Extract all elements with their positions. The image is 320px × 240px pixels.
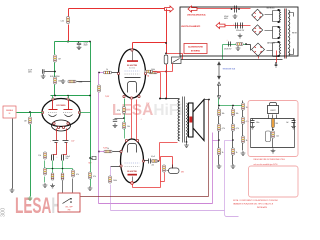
wire anode horizontal bbox=[133, 42, 167, 44]
tube V3 grid1 bbox=[125, 162, 140, 164]
svg-text:1uF: 1uF bbox=[286, 122, 289, 124]
node plateA bbox=[67, 95, 69, 97]
pin V2 right bbox=[144, 72, 146, 74]
pin V1 base3 bbox=[62, 126, 64, 128]
resistor R-plate 100k bbox=[54, 77, 62, 84]
wire bias B down bbox=[63, 143, 67, 155]
resistor R-fb 47k bbox=[89, 172, 96, 179]
svg-text:USCITA FILAMENTI: USCITA FILAMENTI bbox=[181, 25, 201, 28]
svg-text:+: + bbox=[50, 141, 51, 143]
ground input shield bbox=[10, 188, 15, 192]
wire chain B bbox=[232, 107, 234, 165]
pin V3 top2 bbox=[136, 139, 138, 141]
svg-text:0,1uF: 0,1uF bbox=[151, 156, 155, 158]
pin V1 base2 bbox=[57, 126, 59, 128]
label box ALIMENTATORE bbox=[184, 44, 207, 54]
pin V1 base4 bbox=[67, 122, 69, 124]
svg-text:EL34 KT88: EL34 KT88 bbox=[127, 170, 136, 173]
capacitor C-reg-in bbox=[251, 121, 255, 123]
svg-text:470: 470 bbox=[117, 110, 120, 112]
tube V3 label bar bbox=[128, 174, 138, 176]
node decouple junction bbox=[54, 71, 56, 73]
connector mains terminal bbox=[275, 62, 278, 68]
transformer T-mains primary bbox=[289, 10, 290, 56]
ground below C-filter bbox=[77, 45, 82, 49]
wire secondary bottom bbox=[186, 137, 188, 143]
resistor chain 1k A bbox=[218, 148, 224, 155]
resistor R-reg2 bbox=[272, 131, 275, 138]
ground C-reg-out bbox=[291, 125, 296, 129]
wire mains leads bbox=[289, 13, 294, 55]
wire reg top rail bbox=[251, 118, 295, 120]
wire fuse loop top bbox=[167, 54, 183, 60]
node feedback top bbox=[208, 99, 210, 101]
ground C-anodica bbox=[233, 14, 238, 18]
component star-40V bbox=[92, 156, 96, 159]
pin V1 base1 bbox=[53, 122, 55, 124]
terminal squares w3 bbox=[278, 41, 280, 43]
wire chain A bbox=[218, 107, 220, 165]
wire V1 cath A drop bbox=[56, 129, 58, 141]
wire V3 cath tap bbox=[111, 166, 121, 168]
pin V2 left bbox=[117, 72, 119, 74]
wire grid purple tap bbox=[99, 72, 104, 74]
svg-text:47k: 47k bbox=[76, 174, 79, 176]
node fuse bottom bbox=[165, 71, 167, 73]
capacitor C-cath cylinder bbox=[169, 168, 180, 174]
pin V2 bot1 bbox=[123, 95, 125, 97]
psu box frame bbox=[180, 7, 298, 56]
connector J1 input box bbox=[3, 106, 16, 118]
connector arrow filamenti bbox=[216, 23, 225, 29]
tube V3 inner wire bbox=[132, 177, 134, 183]
capacitor C-screen bbox=[113, 120, 117, 122]
wire input shield bbox=[12, 119, 14, 189]
svg-text:4700uF 25V: 4700uF 25V bbox=[236, 30, 244, 32]
transformer T-OUT core bbox=[183, 97, 185, 143]
node chain B mid bbox=[232, 139, 234, 141]
ground regulator bbox=[271, 149, 276, 153]
resistor R-bias 100k bbox=[68, 80, 82, 83]
pin V1 plate B bbox=[67, 98, 69, 100]
wire 47k drop bbox=[72, 169, 74, 171]
wire plate right bbox=[146, 72, 149, 74]
switch SW1 box bbox=[58, 193, 80, 212]
resistor R-screen 470 bbox=[117, 107, 125, 114]
node rail junction bbox=[54, 95, 56, 97]
svg-text:1k: 1k bbox=[222, 152, 224, 154]
transformer T-mains w2 bbox=[279, 27, 280, 38]
wire cath3 red bbox=[133, 182, 161, 188]
resistor chain 4,7k A bbox=[218, 124, 225, 131]
wire green chain rail bbox=[219, 103, 243, 106]
wire green filter rail bbox=[55, 41, 91, 43]
wire xfmr top lead bbox=[161, 98, 180, 100]
rectifier BR3 bbox=[252, 43, 265, 56]
svg-text:100uF: 100uF bbox=[66, 156, 71, 158]
triode A plate bbox=[49, 100, 58, 110]
svg-text:REGOLATORE DI TENSIONE UTILE: REGOLATORE DI TENSIONE UTILE bbox=[254, 158, 286, 161]
svg-text:470uF: 470uF bbox=[224, 16, 229, 18]
ground stub bbox=[61, 79, 66, 83]
switch SW1 terminals bbox=[70, 198, 72, 200]
svg-text:4,7uF: 4,7uF bbox=[28, 70, 32, 72]
pin V1 grid A bbox=[41, 111, 43, 113]
resistor R-left2 bbox=[44, 168, 47, 175]
rectifier BR2 bbox=[252, 25, 262, 35]
wire violet rail bbox=[111, 185, 225, 211]
svg-text:+: + bbox=[233, 24, 234, 26]
wire green PSU drop bbox=[222, 45, 224, 60]
wire purple rail bbox=[98, 73, 100, 204]
capacitor C-aux bbox=[229, 42, 231, 47]
wire c-reg-in tail bbox=[252, 123, 254, 125]
node xfmr top lead b bbox=[165, 98, 167, 100]
svg-text:nel vecchio modello tipo 5V50: nel vecchio modello tipo 5V50 bbox=[254, 163, 278, 166]
node B+ filter junction bbox=[67, 41, 69, 43]
wire green right rail bbox=[90, 42, 92, 159]
triode B cathode bbox=[65, 115, 73, 117]
switch SW1 blade bbox=[63, 199, 71, 204]
svg-text:470uF 25V: 470uF 25V bbox=[224, 49, 231, 51]
wire r tail bbox=[164, 173, 166, 182]
transformer T-mains core bbox=[285, 9, 287, 59]
ground cath A bbox=[50, 184, 55, 188]
wire violet right vertical bbox=[225, 141, 239, 217]
svg-text:100k: 100k bbox=[113, 180, 117, 182]
svg-text:ALIMENTATORE: ALIMENTATORE bbox=[188, 46, 203, 49]
resistor R-cath A 1.5k bbox=[51, 173, 54, 180]
wire B+ top horizontal bbox=[69, 8, 167, 10]
IC LM317 body bbox=[268, 106, 279, 114]
speaker LS1 cone bbox=[193, 100, 204, 141]
switch SW-mains box bbox=[172, 57, 182, 64]
wire reg bottom tail bbox=[272, 139, 274, 148]
IC leads bbox=[269, 115, 277, 119]
wire cath loop top bbox=[161, 156, 173, 158]
node chain L top bbox=[218, 105, 220, 107]
resistor chain 1k B bbox=[232, 148, 238, 155]
svg-text:ESTERNO: ESTERNO bbox=[191, 51, 201, 53]
svg-text:IN: IN bbox=[9, 113, 11, 115]
svg-text:1,5k: 1,5k bbox=[276, 136, 279, 138]
node chain A mid bbox=[218, 139, 220, 141]
wire BR2 to winding bbox=[265, 27, 279, 39]
wire purple bottom horizontal bbox=[99, 203, 213, 205]
wire mains neutral red bbox=[276, 51, 278, 63]
wire green cath rail bbox=[45, 168, 73, 170]
wire violet drop bbox=[110, 167, 112, 177]
svg-text:1k: 1k bbox=[107, 148, 109, 150]
wire feedback maroon horizontal bbox=[81, 196, 209, 198]
wire speaker feedback tap bbox=[205, 99, 209, 101]
wire cath B to switch bbox=[62, 181, 64, 193]
switch SW-mains blade bbox=[173, 59, 180, 63]
resistor R-47k bbox=[72, 170, 79, 177]
probe arrow 1 bbox=[218, 62, 221, 79]
resistor chain 10k C bbox=[242, 103, 249, 110]
node cath A bbox=[52, 168, 54, 170]
node input junction bbox=[29, 111, 31, 113]
svg-text:1,5k: 1,5k bbox=[61, 21, 64, 23]
wire purple chain jog bbox=[213, 140, 219, 142]
wire cath loop bottom bbox=[161, 181, 165, 183]
triode B grid bbox=[63, 111, 72, 113]
wire 47k to switch bbox=[72, 179, 74, 193]
tube V2 inner wire bbox=[132, 51, 134, 61]
wire to C-screen bbox=[115, 118, 125, 120]
node cath B bbox=[62, 168, 64, 170]
transformer T-mains w1 bbox=[279, 10, 280, 22]
svg-text:4,7k: 4,7k bbox=[236, 128, 239, 130]
IC LM317 tab bbox=[270, 103, 277, 107]
pin V3 left1 bbox=[120, 150, 122, 152]
node star junction bbox=[89, 157, 91, 159]
battery bias B bbox=[63, 141, 69, 143]
wire screen bottom bbox=[124, 114, 126, 139]
svg-text:TENSIONE SUB: TENSIONE SUB bbox=[223, 69, 236, 71]
node grid purple bbox=[98, 72, 100, 74]
wire fuse bottom bbox=[166, 65, 168, 72]
speaker LS1 magnet bbox=[189, 117, 192, 123]
wire BR3 output red bbox=[258, 57, 260, 59]
wire plate3 to xfmr bbox=[159, 143, 160, 161]
wire cath loop right bbox=[172, 157, 174, 169]
wire grid2 purple bbox=[99, 151, 105, 153]
wire stub to rail bbox=[77, 81, 91, 83]
wire heater red 1 bbox=[131, 100, 133, 140]
svg-text:IMPIEGATE: IMPIEGATE bbox=[257, 206, 268, 209]
resistor chain 1k C bbox=[242, 136, 248, 143]
wire switch left drop bbox=[172, 64, 174, 72]
wire heater black bus bbox=[181, 59, 283, 61]
wire feedback maroon vertical bbox=[208, 100, 210, 197]
resistor R-cath B 150 bbox=[61, 173, 64, 180]
wire plate3 bbox=[144, 160, 149, 162]
terminal squares w1 bbox=[278, 9, 280, 11]
node screen junction bbox=[123, 117, 125, 119]
wire to C-decouple bbox=[45, 71, 55, 73]
wire heater feed left bbox=[153, 71, 173, 73]
resistor R-decouple 1M bbox=[54, 55, 61, 62]
resistor R-reg 240 bbox=[272, 119, 275, 128]
resistor R-left chain bbox=[44, 152, 47, 159]
wire V1 plateA stub bbox=[52, 96, 54, 99]
wire reg side rails bbox=[251, 119, 295, 148]
node reg adj bbox=[272, 129, 274, 131]
tube V2 label bar bbox=[127, 60, 138, 62]
wire left chain bbox=[44, 161, 46, 183]
wire cyl lead bbox=[167, 165, 173, 171]
svg-text:300: 300 bbox=[1, 208, 7, 217]
svg-text:VARIARE IN FUNZIONE DEL TIPO: VARIARE IN FUNZIONE DEL TIPO DI VALVOLE bbox=[233, 202, 274, 205]
tube V2 grid2 bbox=[125, 73, 140, 75]
wire B+ drop top bbox=[68, 9, 70, 17]
wire input green bbox=[17, 112, 43, 114]
ground chain A bbox=[217, 164, 222, 168]
ground C-screen bbox=[113, 123, 118, 127]
svg-text:LESAH: LESAH bbox=[15, 193, 61, 218]
capacitor C-fil series bbox=[236, 23, 243, 29]
wire cap B tail bbox=[62, 161, 64, 173]
wire grid stopper right bbox=[112, 72, 119, 74]
node plate3 bbox=[158, 160, 160, 162]
wire V1 plateB stub bbox=[68, 96, 70, 99]
svg-text:+: + bbox=[227, 40, 228, 42]
terminal squares w2 bbox=[278, 26, 280, 28]
node aux junction bbox=[245, 43, 247, 45]
wire green left drop bbox=[54, 42, 56, 55]
ground chain C bbox=[241, 151, 246, 155]
wire grid leak down bbox=[30, 113, 32, 197]
wire B+ rail right bbox=[166, 9, 168, 99]
resistor R-22k bbox=[152, 160, 158, 163]
note box frame bbox=[249, 166, 299, 197]
regulator box frame bbox=[248, 101, 298, 157]
capacitor C-reg-out bbox=[292, 121, 296, 123]
ground input leak bbox=[28, 196, 33, 200]
wire plate to rail bbox=[157, 72, 161, 74]
node purple tube2 tap bbox=[98, 151, 100, 153]
wire anodica bbox=[197, 8, 251, 10]
wire green to tube row bbox=[54, 85, 56, 96]
wire reg adj bbox=[272, 128, 274, 131]
svg-text:240: 240 bbox=[276, 123, 279, 125]
connector arrow to external PSU (right-pointing) bbox=[165, 6, 174, 12]
rectifier BR1 bbox=[252, 9, 264, 21]
wire reg bottom rail bbox=[251, 147, 295, 149]
resistor chain 4,7k C bbox=[242, 117, 249, 124]
pin V1 anode right bbox=[78, 111, 80, 113]
tube V1 base bbox=[52, 120, 71, 131]
pin V2 bot3 bbox=[138, 95, 140, 97]
svg-text:6L6 6550: 6L6 6550 bbox=[129, 68, 135, 70]
svg-text:100n: 100n bbox=[256, 122, 260, 124]
pin V3 top1 bbox=[125, 139, 127, 141]
ground R-aux bbox=[236, 46, 241, 50]
resistor R-cath loop bbox=[163, 165, 166, 172]
battery bias A bbox=[53, 141, 59, 143]
capacitor C-cath A bbox=[52, 155, 54, 161]
capacitor C-anodica bbox=[235, 6, 237, 13]
node right rail mid bbox=[89, 95, 91, 97]
svg-text:1k: 1k bbox=[236, 152, 238, 154]
potentiometer P-reg loop bbox=[266, 131, 271, 142]
resistor chain 10k A bbox=[218, 109, 225, 116]
wire cath loop left bbox=[160, 157, 162, 182]
wire BR1 to winding bbox=[265, 11, 279, 22]
svg-text:1k: 1k bbox=[246, 140, 248, 142]
wire violet chain jog bbox=[225, 140, 233, 142]
svg-text:LM317: LM317 bbox=[270, 110, 275, 112]
triode B plate bbox=[64, 100, 73, 110]
resistor R-aux bbox=[236, 43, 243, 46]
ground secondary bbox=[184, 143, 189, 147]
wire reg right vert bbox=[293, 119, 295, 121]
tube V2 EL34 envelope bbox=[119, 49, 146, 98]
node anodica junction bbox=[231, 8, 233, 10]
pin V3 bottom bbox=[131, 182, 134, 185]
wire c-reg-out tail bbox=[293, 123, 295, 125]
svg-text:RETE: RETE bbox=[292, 33, 298, 35]
node B+ junction bbox=[165, 8, 167, 10]
resistor R-grid2 1k bbox=[104, 148, 112, 153]
node secondary gnd bbox=[186, 141, 188, 143]
resistor R-grid 1M bbox=[24, 117, 31, 124]
resistor R-grid stopper bbox=[104, 69, 112, 74]
svg-text:10k: 10k bbox=[222, 113, 225, 115]
svg-text:1k: 1k bbox=[106, 69, 108, 71]
wire V1 cath B drop bbox=[66, 129, 68, 141]
ground left chain bbox=[43, 183, 48, 187]
tube V3 grid2 bbox=[125, 166, 140, 168]
svg-text:47k: 47k bbox=[93, 176, 96, 178]
svg-text:1,5k: 1,5k bbox=[38, 155, 41, 157]
resistor R-plate load bbox=[149, 69, 157, 74]
transformer T-mains w3 bbox=[279, 42, 280, 56]
capacitor C-out bbox=[149, 159, 151, 164]
node xfmr top lead a bbox=[159, 98, 161, 100]
node fuse top bbox=[165, 53, 167, 55]
resistor R-on-purple bbox=[98, 85, 101, 92]
connector arrow anodica bbox=[188, 6, 197, 12]
resistor R-dropper 1.5k bbox=[61, 17, 70, 24]
wire V2 anode up bbox=[132, 43, 134, 49]
capacitor C-decouple bbox=[43, 69, 45, 73]
svg-text:10k: 10k bbox=[236, 113, 239, 115]
node chain M top bbox=[232, 105, 234, 107]
tube V2 heater U bbox=[128, 82, 137, 93]
wire V1 right pin bbox=[80, 112, 91, 114]
tube V1 ECC82 envelope bbox=[42, 99, 80, 127]
speaker LS1 frame bbox=[189, 103, 194, 137]
resistor chain 4,7k B bbox=[232, 124, 239, 131]
wire xfmr bottom lead bbox=[160, 142, 178, 144]
svg-text:USCITA ANODICA: USCITA ANODICA bbox=[187, 14, 206, 17]
wire V2 pin drop bbox=[124, 99, 126, 107]
resistor R-heater bbox=[145, 70, 153, 73]
svg-text:SOLO 6550: SOLO 6550 bbox=[50, 76, 60, 78]
capacitor C-filter 4.7uF 450V bbox=[77, 42, 81, 45]
pin V1 plate A bbox=[52, 98, 54, 100]
ground fb bbox=[88, 186, 93, 190]
ground C-reg-in bbox=[250, 125, 255, 129]
wire aux to BR3 bbox=[247, 45, 251, 51]
transformer T-OUT secondary bbox=[187, 103, 188, 137]
tube V3 EL34 envelope bbox=[121, 139, 144, 183]
capacitor C-cath B bbox=[62, 155, 64, 161]
node right rail top bbox=[89, 41, 91, 43]
transformer T-OUT primary bbox=[178, 99, 180, 141]
wire BR3 to winding bbox=[267, 43, 279, 57]
svg-text:4,7k: 4,7k bbox=[222, 128, 225, 130]
wire star stub bbox=[91, 158, 93, 160]
wire green aux bbox=[223, 44, 247, 46]
svg-text:ECC802S: ECC802S bbox=[57, 105, 67, 107]
resistor R-screen2 10k bbox=[123, 122, 130, 129]
wire filamenti bbox=[225, 25, 251, 27]
ground below C-decouple bbox=[41, 74, 46, 78]
wire B+ drop bottom bbox=[68, 25, 70, 42]
ground chain B bbox=[231, 164, 236, 168]
tube V2 plate bbox=[125, 77, 141, 79]
svg-text:EL34 KT88: EL34 KT88 bbox=[127, 64, 137, 67]
resistor chain 10k B bbox=[232, 109, 239, 116]
triode A cathode bbox=[49, 115, 57, 117]
wire plate rail down bbox=[160, 73, 162, 99]
wire green mid bbox=[54, 63, 56, 77]
wire heater red 2 bbox=[136, 100, 138, 140]
